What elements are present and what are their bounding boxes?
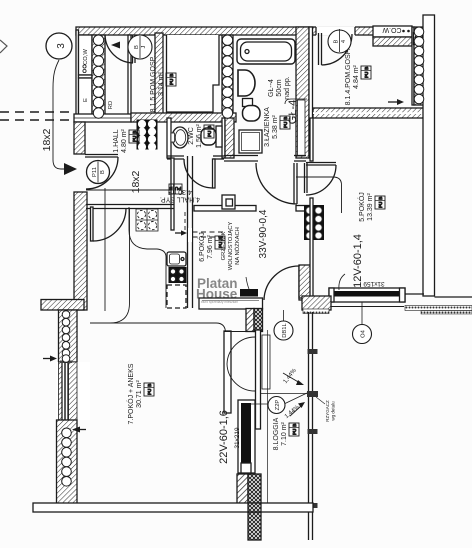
svg-text:nad pp.: nad pp. [284,76,291,99]
svg-text:5.POKÓJ: 5.POKÓJ [357,192,366,222]
svg-text:J: J [141,45,147,48]
svg-text:biuro sprzedaży mieszkań: biuro sprzedaży mieszkań [201,300,238,304]
svg-text:PU: PU [175,186,181,191]
svg-text:B: B [132,131,137,134]
svg-text:B: B [283,117,288,120]
svg-text:8.1,5.POM.GOSP.: 8.1,5.POM.GOSP. [150,56,157,113]
svg-text:O4: O4 [361,329,367,338]
svg-text:B: B [134,45,140,49]
svg-text:B: B [100,170,106,174]
svg-text:B: B [147,384,152,387]
svg-text:13.39 m²: 13.39 m² [367,193,374,221]
svg-text:NA NÓŻKACH: NA NÓŻKACH [234,227,241,265]
svg-text:WOLNOSTOJĄCY: WOLNOSTOJĄCY [228,222,234,271]
svg-text:B: B [334,39,340,43]
svg-text:PU: PU [364,72,369,78]
svg-text:4.84 m²: 4.84 m² [353,64,360,88]
svg-text:4.HALL SYP.: 4.HALL SYP. [160,196,200,203]
svg-text:B: B [364,67,369,70]
svg-text:DB1L: DB1L [282,322,288,337]
svg-text:31x219: 31x219 [234,427,241,449]
svg-text:wg detalu: wg detalu [331,401,336,421]
svg-text:2.WC: 2.WC [188,127,195,145]
svg-text:P11: P11 [92,167,98,177]
svg-text:RZYGACZ: RZYGACZ [325,400,330,422]
svg-text:18x2: 18x2 [130,170,142,193]
svg-text:PU: PU [218,242,223,248]
svg-text:PU: PU [132,136,137,142]
svg-text:B: B [292,424,297,427]
svg-text:3: 3 [56,43,67,49]
svg-text:E: E [83,98,89,102]
svg-text:GŁ--4: GŁ--4 [268,79,275,97]
svg-text:PU: PU [292,429,297,435]
svg-text:4.80 m²: 4.80 m² [121,128,128,152]
svg-text:3.ŁAZIENKA: 3.ŁAZIENKA [264,107,271,147]
svg-text:50cm: 50cm [276,79,283,96]
svg-text:RD: RD [108,101,114,109]
svg-text:PU: PU [378,202,383,208]
svg-text:18x2: 18x2 [41,128,53,151]
svg-text:CO.W: CO.W [382,26,401,33]
svg-text:B: B [169,74,174,77]
svg-text:22V-60-1,6: 22V-60-1,6 [218,410,230,464]
svg-text:31x159: 31x159 [363,280,385,287]
svg-text:6.POKÓJ: 6.POKÓJ [197,232,206,262]
svg-text:PU: PU [147,389,152,395]
svg-text:B: B [378,197,383,200]
svg-text:8.LOGGIA: 8.LOGGIA [273,417,280,450]
svg-text:PU: PU [169,79,174,85]
svg-text:B: B [207,126,212,129]
svg-text:33V-90-0,4: 33V-90-0,4 [258,209,269,258]
svg-text:7.POKÓJ + ANEKS: 7.POKÓJ + ANEKS [126,363,135,424]
svg-text:B: B [169,186,172,191]
svg-text:PU: PU [207,131,212,137]
svg-text:12V-60-1,4: 12V-60-1,4 [352,234,364,288]
svg-text:CO,W: CO,W [83,49,89,65]
svg-text:B: B [218,237,223,240]
svg-text:7.96 m²: 7.96 m² [207,234,214,258]
svg-text:3.14 m²: 3.14 m² [158,71,165,95]
svg-text:5.38 m²: 5.38 m² [272,114,279,138]
svg-text:1.56 m²: 1.56 m² [196,123,203,147]
svg-text:8.1.4.POM.GOSP.: 8.1.4.POM.GOSP. [345,49,352,106]
svg-text:7.10 m²: 7.10 m² [281,421,288,445]
svg-text:Z2P: Z2P [275,400,281,411]
svg-text:1.HALL: 1.HALL [113,129,120,152]
svg-text:PU: PU [283,122,288,128]
svg-text:30.71 m²: 30.71 m² [136,380,143,408]
